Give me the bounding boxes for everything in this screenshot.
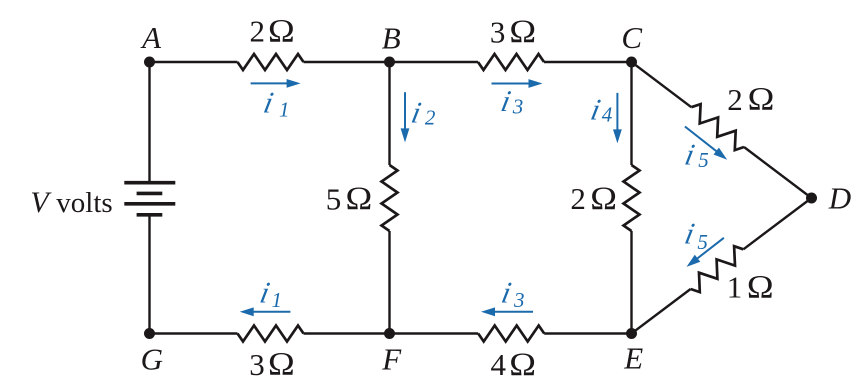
wire C down to vertical resistor 2ohm top — [630, 62, 632, 165]
current label i4 — [588, 93, 613, 127]
resistor 5ohm between B and F — [382, 165, 398, 231]
wire diagonal resistor 1ohm to D — [743, 198, 811, 249]
resistor 2ohm between C and D — [691, 104, 744, 150]
current label i2 — [409, 96, 436, 130]
svg-text:4: 4 — [602, 103, 613, 127]
battery source V volts — [124, 183, 175, 215]
svg-text:i: i — [682, 217, 697, 251]
current arrow i2 (pointing down) — [401, 92, 410, 142]
svg-text:A: A — [140, 20, 162, 55]
svg-text:Ω: Ω — [747, 269, 774, 305]
svg-text:2: 2 — [570, 181, 586, 216]
svg-text:B: B — [382, 21, 401, 56]
svg-text:5: 5 — [326, 182, 342, 217]
svg-text:i: i — [499, 276, 514, 310]
svg-text:i: i — [261, 86, 276, 120]
current arrow i3 (bottom, pointing left) — [481, 307, 533, 316]
svg-text:5: 5 — [697, 230, 708, 254]
svg-text:i: i — [682, 138, 697, 172]
svg-text:i: i — [257, 276, 272, 310]
svg-text:2: 2 — [250, 14, 266, 49]
wire B down to resistor 5ohm top — [388, 62, 390, 165]
node A junction dot — [144, 57, 155, 68]
resistor 3ohm between B and C — [478, 54, 544, 70]
svg-text:Ω: Ω — [268, 346, 295, 382]
resistor 2ohm between A and B — [238, 54, 304, 70]
svg-text:i: i — [498, 84, 513, 118]
svg-text:F: F — [381, 342, 402, 377]
current arrow i5 (C-D, pointing down-right) — [685, 127, 727, 160]
current arrow i5 (D-E, pointing down-left) — [687, 238, 724, 267]
svg-text:Ω: Ω — [268, 13, 295, 49]
wire bottom resistor 3ohm right to F — [304, 332, 390, 334]
value label 1 ohm (E-D) — [727, 269, 774, 305]
wire diagonal resistor 2ohm to D — [744, 147, 812, 198]
node E junction dot — [626, 328, 637, 339]
current label i5 (on C-D) — [682, 138, 709, 172]
resistor 3ohm between G and F — [238, 326, 304, 342]
svg-text:1: 1 — [727, 270, 743, 305]
node G junction dot — [144, 328, 155, 339]
node C junction dot — [626, 57, 637, 68]
node F junction dot — [384, 328, 395, 339]
current arrow i1 (bottom, pointing left) — [240, 307, 291, 316]
svg-text:2: 2 — [425, 106, 436, 130]
node D junction dot — [806, 193, 817, 204]
current arrow i3 (top, pointing right) — [492, 79, 543, 88]
svg-text:i: i — [409, 96, 424, 130]
wire A to battery top — [148, 62, 150, 183]
wire vertical resistor 2ohm bottom to E — [630, 231, 632, 334]
svg-text:3: 3 — [513, 288, 525, 312]
wire battery bottom to G — [148, 215, 150, 334]
svg-text:volts: volts — [56, 187, 112, 219]
svg-text:Ω: Ω — [509, 346, 536, 382]
svg-text:V: V — [30, 186, 52, 219]
svg-text:C: C — [621, 20, 642, 55]
svg-text:Ω: Ω — [346, 180, 373, 216]
svg-text:Ω: Ω — [590, 180, 617, 216]
svg-text:D: D — [828, 180, 851, 215]
current label i5 (on D-E) — [682, 217, 708, 254]
wire E to diagonal resistor 1ohm — [632, 289, 691, 334]
wire resistor 3ohm right to C — [544, 61, 632, 63]
wire resistor 2ohm right to B — [304, 61, 390, 63]
resistor 4ohm between F and E — [478, 326, 544, 342]
wire resistor 5ohm bottom to F — [388, 231, 390, 334]
current label i1 (bottom) — [257, 276, 282, 312]
svg-text:5: 5 — [698, 148, 709, 172]
svg-text:Ω: Ω — [748, 81, 775, 117]
current label i3 (top) — [498, 84, 523, 119]
value label 5 ohm (B-F) — [326, 180, 372, 216]
resistor 2ohm between C and E — [624, 165, 640, 231]
svg-text:2: 2 — [727, 82, 743, 117]
current label i3 (bottom) — [499, 276, 525, 312]
value label 2 ohm (C-E) — [570, 180, 617, 216]
svg-text:3: 3 — [512, 95, 524, 119]
current arrow i4 (pointing down) — [613, 93, 622, 143]
wire C to diagonal resistor 2ohm — [632, 62, 692, 107]
svg-text:3: 3 — [490, 15, 506, 50]
wire resistor 4ohm right to E — [544, 332, 631, 334]
wire F to resistor 4ohm left — [390, 332, 479, 334]
resistor 1ohm between E and D — [691, 246, 744, 292]
svg-text:Ω: Ω — [509, 13, 536, 49]
node B junction dot — [384, 57, 395, 68]
svg-text:G: G — [141, 342, 163, 377]
svg-text:3: 3 — [249, 347, 264, 382]
value label 3 ohm (G-F) — [249, 346, 294, 382]
value label 2 ohm (C-D) — [727, 81, 774, 117]
current arrow i1 (top, pointing right) — [251, 79, 301, 88]
value label 4 ohm (F-E) — [491, 346, 536, 382]
wire A to resistor 2ohm left — [150, 61, 238, 63]
current label i1 (top) — [261, 86, 290, 122]
wire G to bottom resistor 3ohm left — [150, 332, 238, 334]
svg-text:E: E — [623, 341, 643, 376]
value label 3 ohm (B-C) — [490, 13, 536, 49]
value label 2 ohm (A-B) — [250, 13, 295, 49]
svg-text:1: 1 — [279, 98, 290, 122]
svg-text:4: 4 — [491, 347, 507, 382]
svg-text:1: 1 — [272, 288, 283, 312]
wire B to resistor 3ohm left — [390, 61, 479, 63]
